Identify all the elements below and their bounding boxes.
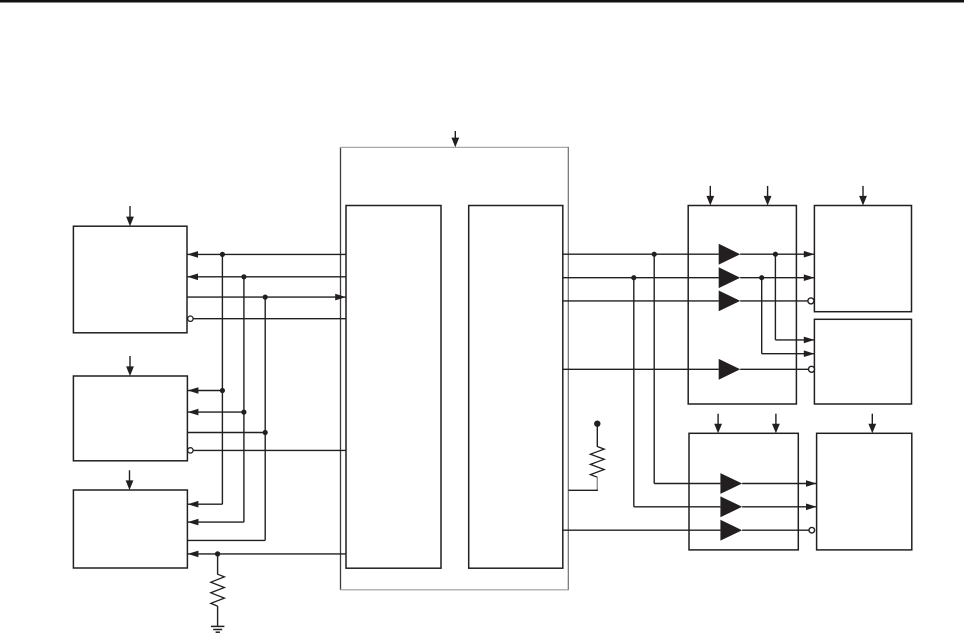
net R2: branch wire into upper-right box B — [762, 353, 815, 355]
net L2: branch wire into left box 3 — [188, 521, 244, 523]
top entry arrow 1 into upper buffer bank — [706, 186, 714, 206]
block: outer device boundary (gray frame) — [340, 147, 569, 590]
net L3: wire left box 1 to inner array 1 (row y=297.1) — [187, 296, 346, 298]
net L1: junction dot — [220, 252, 225, 257]
block: upper-right box B — [814, 319, 911, 404]
buffer U4 — [719, 359, 741, 380]
net R2: junction dot on output — [759, 275, 764, 280]
net R2: vertical branch wire x=634 to lower buffer bank — [633, 278, 635, 507]
block: inner array 2 (right tall rectangle) — [469, 206, 563, 569]
wire resistor R2 to outer device boundary — [568, 489, 598, 491]
buffer U2 — [719, 267, 741, 288]
net R1: wire inner array 2 to buffer U1 input (row y=254.2) — [563, 253, 719, 255]
net R2: junction dot — [631, 275, 636, 280]
net L2: branch wire into left box 2 — [188, 411, 244, 413]
net R1: vertical branch wire x=775 — [774, 254, 776, 340]
net L2: wire inner array 1 to left box 1 (row y=276.8) — [187, 276, 346, 278]
resistor R2 lead (bottom, gray) — [596, 477, 598, 490]
net L2: arrowhead into left box 2 — [188, 409, 199, 416]
top entry arrow into upper-right box A — [859, 186, 867, 206]
resistor R2 terminal dot — [594, 421, 600, 427]
buffer U5 — [720, 473, 742, 494]
block: left box 2 (middle-left) — [73, 376, 187, 461]
net R1: arrowhead into upper-right box A — [804, 251, 815, 258]
net L1: arrowhead into left box 1 — [187, 251, 198, 258]
net R1: buffer U1 output wire — [740, 253, 814, 255]
net L3: branch wire to left box 3 — [188, 539, 266, 541]
page header rule — [0, 0, 964, 3]
resistor R1 lead (bottom) — [217, 606, 219, 626]
resistor R1 body — [211, 574, 225, 606]
net L3: vertical wire x=265 — [264, 297, 266, 540]
net R1: branch wire to buffer U5 input — [654, 483, 720, 485]
net R2: buffer U2 output wire — [740, 277, 814, 279]
net R8: active-low bubble at lower-right box C — [809, 527, 815, 533]
net R3: active-low bubble at upper-right box A — [808, 298, 814, 304]
net R2: arrowhead into upper-right box A — [804, 274, 815, 281]
net L1: junction dot at left box 2 branch — [220, 388, 225, 393]
top entry arrow into left box 1 — [126, 206, 134, 226]
net L3: arrowhead into inner array 1 — [335, 294, 346, 301]
ground symbol — [211, 626, 225, 632]
top entry arrow into outer device boundary — [451, 131, 459, 147]
top entry arrow 2 into upper buffer bank — [764, 186, 772, 206]
block: upper-right box A — [814, 206, 911, 312]
net L1: arrowhead into left box 3 — [188, 501, 199, 508]
net L3: branch wire to left box 2 — [188, 432, 266, 434]
net L2: junction dot at left box 2 branch — [241, 410, 246, 415]
buffer U1 — [719, 244, 741, 265]
net L1: arrowhead into left box 2 — [188, 387, 199, 394]
net R1: junction dot on output — [773, 252, 778, 257]
net R7: buffer U6 output wire — [742, 506, 817, 508]
net R4: buffer U4 output wire — [740, 368, 808, 370]
resistor R2 body — [590, 447, 604, 478]
net R3: wire inner array 2 to buffer U3 input (row y=300.9) — [563, 300, 719, 302]
net L2: arrowhead into left box 3 — [188, 519, 199, 526]
net R1: branch wire into upper-right box B — [775, 339, 814, 341]
net L6: junction dot at pull-down resistor — [215, 551, 220, 556]
net L2: junction dot — [241, 274, 246, 279]
resistor R1 lead (top) — [217, 554, 219, 575]
net R4: wire inner array 2 to buffer U4 input (row y=369.3) — [563, 368, 719, 370]
net R2: vertical branch wire x=762 — [761, 278, 763, 354]
buffer U6 — [720, 496, 742, 517]
net L6: wire inner array 1 to left box 3 (row y=553.9) — [188, 553, 347, 555]
net R2: wire inner array 2 to buffer U2 input (row y=277.7) — [563, 277, 719, 279]
block: left box 3 (bottom-left) — [73, 490, 187, 568]
net L5: wire left box 2 to inner array 1 (row y=450.4) — [193, 449, 346, 451]
block: lower output buffer bank — [689, 433, 798, 550]
net R8: buffer U7 output wire — [742, 529, 809, 531]
net L4: active-low bubble on left box 1 — [188, 316, 193, 321]
top entry arrow into left box 2 — [126, 356, 134, 376]
net R1: vertical branch wire x=654 to lower buffer bank — [653, 254, 655, 483]
net L1: wire inner array 1 to left box 1 (row y=254.4) — [187, 253, 346, 255]
block: lower-right box C — [817, 433, 912, 550]
top entry arrow 1 into lower buffer bank — [714, 414, 722, 434]
net L2: arrowhead into left box 1 — [187, 274, 198, 281]
net L5: active-low bubble on left box 2 — [188, 448, 193, 453]
block: inner array 1 (left tall rectangle) — [346, 206, 441, 569]
net L2: vertical wire x=244 — [243, 277, 245, 522]
net R4: active-low bubble at upper-right box B — [809, 366, 815, 372]
net R3: buffer U3 output wire — [740, 300, 808, 302]
net R5: wire inner array 2 to buffer U7 input (row y=530.2) — [563, 529, 721, 531]
buffer U7 — [720, 520, 742, 541]
buffer U3 — [719, 291, 741, 312]
net R2: arrowhead into upper-right box B — [804, 350, 815, 357]
net L1: branch wire into left box 2 — [188, 390, 223, 392]
net R2: branch wire to buffer U6 input — [634, 506, 721, 508]
net L1: vertical wire x=222 — [221, 254, 223, 504]
net R6: arrowhead into lower-right box C — [806, 480, 817, 487]
block: left box 1 (top-left) — [73, 226, 187, 333]
net R1: junction dot — [652, 252, 657, 257]
net R1: arrowhead into upper-right box B — [804, 337, 815, 344]
net L6: arrowhead into left box 3 — [188, 551, 199, 558]
block: upper output buffer bank — [688, 206, 796, 405]
net R6: buffer U5 output wire — [742, 483, 817, 485]
net L1: branch wire into left box 3 — [188, 503, 223, 505]
net R7: arrowhead into lower-right box C — [806, 504, 817, 511]
net L3: junction dot — [263, 295, 268, 300]
resistor R2 lead (top) — [596, 426, 598, 447]
top entry arrow into left box 3 — [126, 470, 134, 490]
top entry arrow into lower-right box C — [868, 414, 876, 434]
top entry arrow 2 into lower buffer bank — [772, 414, 780, 434]
net L3: junction dot at left box 2 branch — [263, 430, 268, 435]
net L4: wire left box 1 to inner array 1 (row y=318.7) — [193, 318, 346, 320]
